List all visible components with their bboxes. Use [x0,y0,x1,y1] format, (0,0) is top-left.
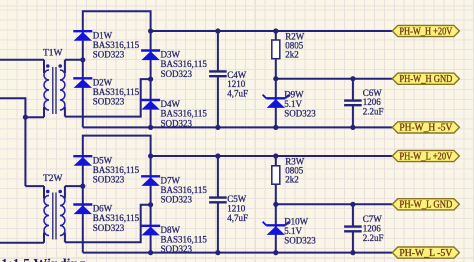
wire GND H rail [276,78,393,80]
svg-text:BAS316,115: BAS316,115 [161,59,208,69]
junction -5V H at bridge [148,125,153,130]
capacitor C5W [209,194,248,223]
zener diode D9W [263,90,317,119]
junction primary chain [23,115,28,120]
capacitor C4W [209,70,248,99]
svg-text:PH-W_L GND: PH-W_L GND [399,200,452,211]
svg-text:4,7uF: 4,7uF [227,89,248,99]
wire T1W secondary bottom to bridge1 AC2 [65,79,151,117]
junction bridge1 AC1 [80,57,85,62]
wire T2W secondary bottom to bridge2 AC2 [65,205,151,243]
bridge 2 left rail + top loop + right rail [83,136,151,253]
port PH-W_L -5V [392,247,459,259]
wire +20V L rail [151,155,393,157]
svg-text:PH-W_H -5V: PH-W_H -5V [399,123,453,134]
wire T2W secondary top to bridge2 AC1 [65,185,83,187]
zener diode D10W [263,217,317,246]
wire primary chain (left edge to T2W) [0,98,25,186]
svg-text:BAS316,115: BAS316,115 [161,109,208,119]
svg-text:BAS316,115: BAS316,115 [93,213,140,223]
junction -5V H at D9W [273,125,278,130]
wire R3W column [275,156,277,204]
junction +20V L at R3W [273,153,278,158]
svg-text:BAS316,115: BAS316,115 [93,87,140,97]
port PH-W_H -5V [392,122,459,134]
wire C6W bottom lead [352,105,354,127]
wire C6W top lead [352,79,354,101]
svg-text:BAS316,115: BAS316,115 [93,40,140,50]
junction +20V L at bridge [148,153,153,158]
diode D2W [73,77,139,106]
transformer T2W [43,174,65,243]
junction -5V L at bridge [148,250,153,255]
wire R2W column [275,31,277,79]
wire D9W column [275,79,277,128]
svg-text:SOD323: SOD323 [284,108,316,118]
port PH-W_L +20V [392,150,459,162]
diode D5W [73,155,139,184]
port PH-W_L GND [392,199,459,211]
diode D8W [141,225,207,254]
junction bridge2 AC2 [148,202,153,207]
junction -5V L at C5W [215,250,220,255]
svg-text:D3W: D3W [161,50,181,60]
svg-text:BAS316,115: BAS316,115 [93,165,140,175]
junction GND L at C7W [350,202,355,207]
svg-text:SOD323: SOD323 [93,223,125,233]
svg-text:SOD323: SOD323 [93,97,125,107]
wire C5W top lead [217,156,219,198]
svg-text:D4W: D4W [161,99,181,109]
junction -5V L at D10W [273,250,278,255]
wire GND L rail [276,203,393,205]
svg-text:D2W: D2W [93,77,113,87]
wire C5W bottom lead [217,202,219,252]
junction -5V H at C4W [215,125,220,130]
wire +20V H rail [151,30,393,32]
svg-text:T1W: T1W [43,49,63,59]
wire C7W bottom lead [352,231,354,252]
junction +20V H at bridge [148,28,153,33]
junction +20V H at C4W [215,28,220,33]
wire T1W primary bottom lead [25,116,44,118]
svg-text:D8W: D8W [161,225,181,235]
svg-text:D5W: D5W [93,155,113,165]
junction +20V H at R2W [273,28,278,33]
capacitor C7W [344,214,383,243]
svg-text:SOD323: SOD323 [161,195,193,205]
junction +20V L at C5W [215,153,220,158]
junction bridge2 AC1 [80,184,85,189]
wire T2W primary top lead [25,185,44,187]
diode D6W [73,204,139,233]
port PH-W_H +20V [392,25,459,37]
wire -5V L rail [83,252,393,254]
svg-text:2k2: 2k2 [285,50,299,60]
wire T1W primary top lead [0,59,44,61]
diode D1W [73,30,139,59]
wire T1W secondary top to bridge1 AC1 [65,59,83,61]
svg-text:D6W: D6W [93,204,113,214]
junction bridge1 AC2 [148,77,153,82]
wire -5V H rail [83,126,393,128]
diode D3W [141,50,207,79]
svg-text:PH-W_L -5V: PH-W_L -5V [399,248,453,259]
svg-text:2.2uF: 2.2uF [363,233,384,243]
svg-text:BAS316,115: BAS316,115 [161,235,208,245]
wire C4W top lead [217,31,219,71]
wire C7W top lead [352,204,354,226]
capacitor C6W [344,88,383,117]
svg-text:4,7uF: 4,7uF [227,213,248,223]
port PH-W_H GND [392,73,459,85]
resistor R3W [272,157,305,185]
wire D10W column [275,204,277,252]
wire T2W primary bottom lead [0,242,44,244]
svg-text:SOD323: SOD323 [93,175,125,185]
junction -5V H at C6W [350,125,355,130]
junction GND H at C6W [350,76,355,81]
svg-text:PH-W_L +20V: PH-W_L +20V [399,151,453,162]
transformer T1W [43,49,65,118]
svg-text:1:1.5 Winding: 1:1.5 Winding [1,257,85,262]
junction GND L at R3W/D10W [273,202,278,207]
svg-text:2k2: 2k2 [285,175,299,185]
svg-text:D7W: D7W [161,175,181,185]
wire C4W bottom lead [217,76,219,127]
svg-text:D1W: D1W [93,30,113,40]
junction -5V L at C7W [350,250,355,255]
svg-text:PH-W_H +20V: PH-W_H +20V [399,26,453,37]
junction GND H at R2W/D9W [273,76,278,81]
svg-text:T2W: T2W [43,174,63,184]
svg-text:2.2uF: 2.2uF [363,107,384,117]
resistor R2W [272,32,305,60]
svg-text:SOD323: SOD323 [284,235,316,245]
svg-text:SOD323: SOD323 [93,50,125,60]
svg-text:BAS316,115: BAS316,115 [161,185,208,195]
bridge 1 left rail + top loop + right rail [83,11,151,127]
svg-text:PH-W_H GND: PH-W_H GND [399,74,452,85]
svg-text:SOD323: SOD323 [161,69,193,79]
diode D7W [141,175,207,204]
diode D4W [141,99,207,128]
